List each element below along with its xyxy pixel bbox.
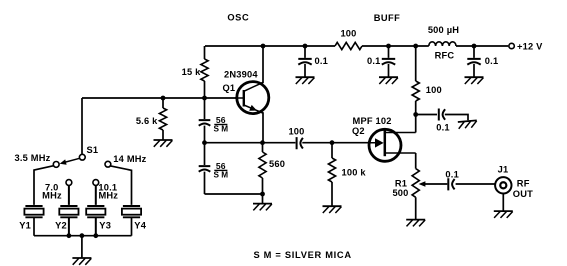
svg-text:S M: S M <box>214 171 229 180</box>
svg-text:2N3904: 2N3904 <box>224 69 258 79</box>
svg-text:56: 56 <box>216 161 226 171</box>
svg-text:Q1: Q1 <box>223 83 236 93</box>
svg-text:56: 56 <box>216 115 226 125</box>
svg-text:BUFF: BUFF <box>374 13 400 23</box>
svg-text:S1: S1 <box>87 145 99 155</box>
svg-text:Y2: Y2 <box>55 221 67 231</box>
svg-text:MPF 102: MPF 102 <box>353 116 392 126</box>
svg-text:100: 100 <box>340 28 356 38</box>
svg-text:0.1: 0.1 <box>315 56 329 66</box>
svg-text:100: 100 <box>288 127 304 137</box>
svg-text:+12 V: +12 V <box>517 41 543 51</box>
svg-text:100 k: 100 k <box>342 167 367 177</box>
svg-text:Y3: Y3 <box>99 221 111 231</box>
svg-text:S M: S M <box>214 125 229 134</box>
svg-text:500 µH: 500 µH <box>428 25 459 35</box>
svg-text:MHz: MHz <box>98 190 118 200</box>
svg-text:15 k: 15 k <box>182 67 202 77</box>
svg-text:S M = SILVER MICA: S M = SILVER MICA <box>254 250 352 260</box>
svg-text:OUT: OUT <box>513 189 533 199</box>
svg-text:MHz: MHz <box>42 190 62 200</box>
svg-text:100: 100 <box>426 85 442 95</box>
svg-text:5.6 k: 5.6 k <box>136 116 158 126</box>
svg-text:500: 500 <box>392 188 408 198</box>
svg-text:J1: J1 <box>498 165 509 175</box>
svg-text:Y1: Y1 <box>19 221 31 231</box>
svg-text:RFC: RFC <box>435 50 455 60</box>
svg-text:Y4: Y4 <box>134 221 146 231</box>
svg-text:RF: RF <box>517 179 530 189</box>
svg-text:0.1: 0.1 <box>485 56 499 66</box>
svg-text:Q2: Q2 <box>352 126 365 136</box>
svg-text:560: 560 <box>269 159 285 169</box>
svg-text:0.1: 0.1 <box>445 170 459 180</box>
svg-text:14 MHz: 14 MHz <box>113 154 146 164</box>
svg-text:3.5 MHz: 3.5 MHz <box>14 153 50 163</box>
svg-text:0.1: 0.1 <box>367 56 381 66</box>
svg-text:OSC: OSC <box>227 12 249 22</box>
svg-text:0.1: 0.1 <box>436 123 450 133</box>
